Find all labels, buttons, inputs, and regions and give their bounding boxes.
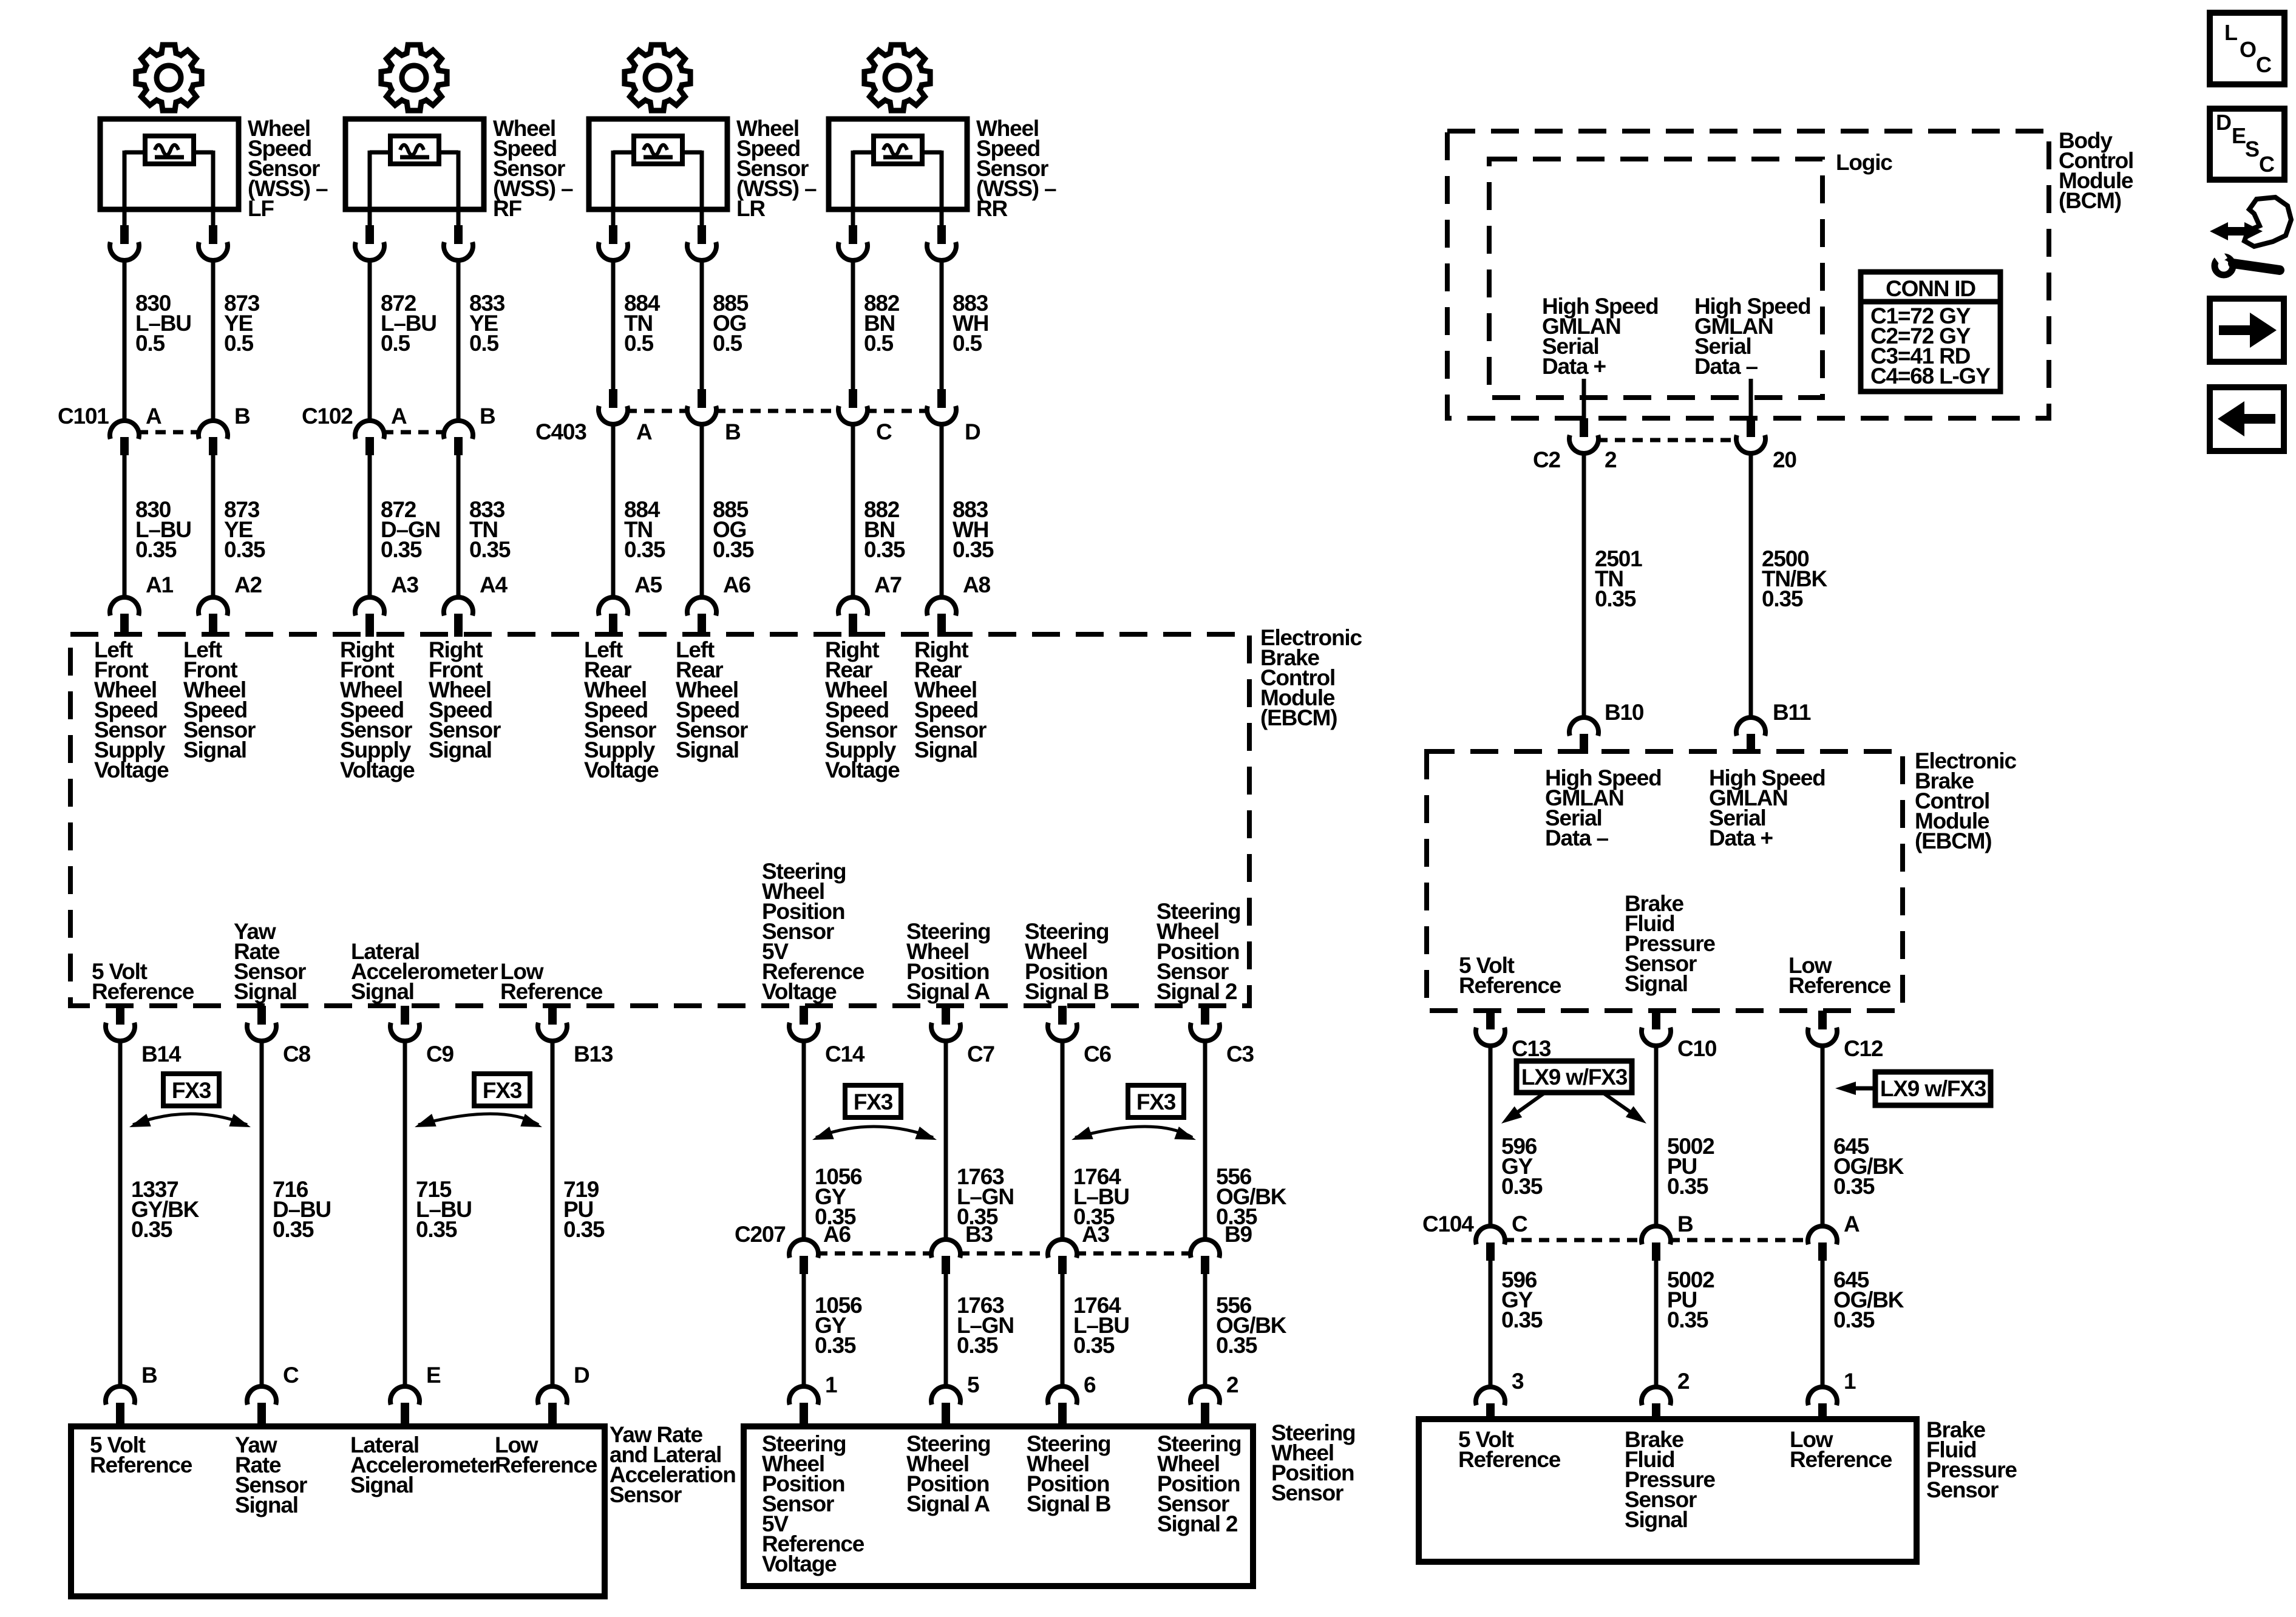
svg-text:Reference: Reference [90,1453,192,1477]
svg-text:0.35: 0.35 [1073,1333,1115,1358]
brake fluid pressure sensor pin 3 label [1512,1369,1524,1394]
svg-text:0.5: 0.5 [624,331,653,356]
svg-text:C3: C3 [1226,1042,1254,1066]
svg-text:LF: LF [248,196,274,221]
wire 882 BN 0.35 to EBCM pin A7 [851,424,855,600]
CONN ID table [1861,272,2000,392]
steering sensor pin 1 connector [789,1386,818,1428]
svg-text:FX3: FX3 [172,1078,211,1103]
label: circuit 1337 GY/BK 0.35 [131,1177,200,1242]
wheel speed sensor (WSS) LR: sensor element symbol [634,136,682,164]
steering sensor pin 5 label [967,1372,979,1397]
label: circuit 716 D–BU 0.35 [273,1177,331,1242]
EBCM bottom pin B14 connector [106,1006,135,1041]
label: Wheel Speed Sensor (WSS) - RR [976,116,1056,221]
EBCM pin B11 label [1773,700,1811,725]
yaw sensor pin E label [426,1363,441,1388]
svg-text:0.5: 0.5 [469,331,498,356]
EBCM internal label: Left Rear Wheel Speed Sensor Supply Voltage [584,637,659,782]
BCM internal label: High Speed GMLAN Serial Data - [1694,294,1811,379]
EBCM internal label: 5 Volt Reference [1459,953,1561,998]
EBCM internal label: Right Front Wheel Speed Sensor Signal [429,637,501,762]
connector C104 pin A [1808,1226,1837,1261]
connector C207 label [735,1222,786,1247]
EBCM internal label: Steering Wheel Position Signal B [1025,919,1109,1004]
svg-text:C10: C10 [1677,1036,1717,1061]
connector C101 label [58,404,109,429]
svg-text:5: 5 [967,1372,979,1397]
svg-text:A: A [636,419,652,444]
wheel speed sensor (WSS) RR: component box [829,119,967,209]
svg-text:Signal: Signal [429,737,492,762]
label: circuit 882 BN 0.5 [864,291,900,356]
svg-text:A: A [391,404,407,429]
svg-text:6: 6 [1084,1372,1096,1397]
wheel speed sensor (WSS) LF: component box [100,119,239,209]
label: Wheel Speed Sensor (WSS) - LF [248,116,328,221]
connector C403 pin A label [636,419,652,444]
svg-text:0.35: 0.35 [953,537,994,562]
wire 872 D–GN 0.35 to EBCM pin A3 [368,454,372,600]
wheel speed sensor (WSS) LR: gear icon [625,45,690,110]
EBCM bottom pin C3 connector [1190,1006,1220,1041]
svg-text:B14: B14 [141,1042,182,1066]
wire 556 OG/BK 0.35 from EBCM to C207 pin B9 [1203,1040,1207,1240]
label: circuit 884 TN 0.5 [624,291,661,356]
EBCM internal label: Lateral Accelerometer Signal [351,939,498,1004]
EBCM pin A5 connector [599,597,628,637]
svg-text:2: 2 [1226,1372,1238,1397]
wire 5002 PU 0.35 from C104 to brake fluid pressure sensor pin 2 [1654,1261,1659,1389]
svg-text:B13: B13 [574,1042,613,1066]
label: circuit 883 WH 0.5 [953,291,988,356]
svg-text:A6: A6 [823,1222,851,1247]
svg-text:C: C [1512,1212,1527,1236]
wire 1337 GY/BK 0.35 from EBCM to yaw sensor pin B [118,1040,123,1389]
label: circuit 1056 GY 0.35 (lower) [815,1293,862,1358]
EBCM internal label: Right Rear Wheel Speed Sensor Supply Voltage [825,637,900,782]
svg-text:(EBCM): (EBCM) [1260,705,1337,730]
connector C403 label [535,419,586,444]
svg-text:A1: A1 [146,572,174,597]
wheel speed sensor (WSS) RR: gear icon [864,45,930,110]
svg-text:0.35: 0.35 [469,537,511,562]
DESC icon box [2210,109,2284,180]
wire 645 OG/BK 0.35 from EBCM to C104 pin A [1821,1045,1825,1227]
connector: LR WSS pigtail pin B (male pin + female terminal) [687,225,716,260]
svg-text:0.35: 0.35 [1667,1174,1708,1199]
EBCM internal label: Low Reference [1788,953,1891,998]
wire 830 L–BU 0.5 from WSS to connector [123,260,127,421]
EBCM pin B10 label [1605,700,1644,725]
wheel speed sensor (WSS) RF: component box [345,119,484,209]
wire 719 PU 0.35 from EBCM to yaw sensor pin D [551,1040,555,1389]
svg-text:O: O [2240,37,2256,62]
Body Control Module (BCM) dashed box [1447,131,2049,418]
EBCM internal label: Steering Wheel Position Sensor Signal 2 [1156,899,1240,1004]
svg-text:Signal B: Signal B [1027,1491,1111,1516]
svg-text:A3: A3 [1082,1222,1110,1247]
svg-text:3: 3 [1512,1369,1524,1394]
label: circuit 2500 TN/BK 0.35 [1762,546,1828,611]
LOC icon box [2210,13,2284,84]
yaw sensor pin C connector [247,1386,276,1428]
label: circuit 830 L–BU 0.5 [135,291,191,356]
svg-text:Voltage: Voltage [762,979,837,1004]
connector C207 B3-A3 dashed link [959,1252,1049,1256]
label: circuit 2501 TN 0.35 [1595,546,1642,611]
EBCM bottom pin C9 connector [390,1006,419,1041]
svg-text:C: C [876,419,892,444]
EBCM bottom pin C14 label [825,1042,865,1066]
svg-text:Reference: Reference [1458,1447,1561,1472]
steering sensor pin 5 connector [931,1386,960,1428]
connector C403 pin B label [725,419,741,444]
svg-text:Data –: Data – [1694,354,1758,379]
EBCM internal label: Yaw Rate Sensor Signal [234,919,306,1004]
svg-text:C9: C9 [426,1042,454,1066]
wire 883 WH 0.5 from WSS to connector [940,260,944,389]
svg-text:C207: C207 [735,1222,786,1247]
EBCM internal label: Brake Fluid Pressure Sensor Signal [1625,891,1715,996]
LX9 w/FX3 option tag (right, arrow to C12 wire) [1835,1072,1991,1105]
svg-text:0.5: 0.5 [864,331,893,356]
EBCM bottom pin C3 label [1226,1042,1254,1066]
BCM Logic dashed box [1489,159,1822,398]
wire 873 YE 0.35 to EBCM pin A2 [211,454,216,600]
svg-text:0.5: 0.5 [713,331,742,356]
connector C403 C-D dashed link [866,409,928,413]
svg-text:Signal: Signal [234,979,297,1004]
brake fluid pressure sensor pin 1 label [1844,1369,1856,1394]
label: Brake Fluid Pressure Sensor [1926,1417,2017,1502]
label: circuit 873 YE 0.35 [224,497,265,562]
label: Yaw Rate and Lateral Acceleration Sensor [610,1422,736,1507]
EBCM internal label: Steering Wheel Position Sensor 5V Reference Voltage [762,859,864,1004]
EBCM bottom pin C7 label [967,1042,994,1066]
EBCM bottom pin C12 label [1844,1036,1883,1061]
svg-text:A: A [1844,1212,1860,1236]
wire 596 GY 0.35 from C104 to brake fluid pressure sensor pin 3 [1489,1261,1493,1389]
Yaw Rate and Lateral Acceleration Sensor box [71,1426,605,1596]
connector C101 A-B dashed link [138,430,200,435]
svg-text:A5: A5 [634,572,662,597]
yaw sensor internal labels [90,1432,192,1477]
EBCM internal label: Right Front Wheel Speed Sensor Supply Voltage [340,637,415,782]
svg-text:Data +: Data + [1709,825,1773,850]
svg-text:RR: RR [976,196,1008,221]
svg-text:C104: C104 [1422,1212,1474,1236]
label: circuit 883 WH 0.35 [953,497,994,562]
FX3 option tag (between B14 and C8) [129,1074,251,1127]
EBCM pin A8 connector [927,597,956,637]
svg-text:C: C [2259,152,2275,177]
svg-text:0.35: 0.35 [815,1333,856,1358]
svg-text:A6: A6 [723,572,751,597]
connector: LR WSS pigtail pin A (male pin + female terminal) [599,225,628,260]
label: circuit 645 OG/BK 0.35 (lower) [1833,1267,1904,1332]
connector C403 pin B [687,389,716,424]
wire 1763 L–GN 0.35 from EBCM to C207 pin B3 [944,1040,948,1240]
connector C104 label [1422,1212,1474,1236]
svg-text:0.35: 0.35 [273,1217,314,1242]
wire 2500 TN/BK 0.35 (GMLAN serial data) [1749,452,1753,718]
steering sensor pin 6 label [1084,1372,1096,1397]
connector C207 pin A6 label [823,1222,851,1247]
label: circuit 872 D–GN 0.35 [381,497,440,562]
wire LF sensor internal leads [124,151,213,225]
svg-text:0.35: 0.35 [563,1217,605,1242]
svg-text:D: D [965,419,980,444]
svg-text:A8: A8 [963,572,991,597]
svg-text:Signal A: Signal A [906,1491,990,1516]
yaw sensor pin B label [141,1363,157,1388]
EBCM bottom pin B13 connector [538,1006,567,1041]
EBCM pin A2 connector [199,597,228,637]
svg-text:D: D [2216,110,2231,135]
wire 830 L–BU 0.35 to EBCM pin A1 [123,454,127,600]
connector C2 pin 20 [1736,418,1765,453]
svg-text:(EBCM): (EBCM) [1915,829,1991,853]
wire 1056 GY 0.35 from EBCM to C207 pin A6 [802,1040,806,1240]
svg-text:Signal: Signal [350,1473,413,1497]
label: circuit 715 L–BU 0.35 [416,1177,472,1242]
svg-text:Signal 2: Signal 2 [1157,1511,1238,1536]
wire 715 L–BU 0.35 from EBCM to yaw sensor pin E [403,1040,407,1389]
svg-text:S: S [2245,137,2259,161]
connector C207 pin A6 [789,1239,818,1274]
connector C102 pin B label [480,404,495,429]
wire 1764 L–BU 0.35 from EBCM to C207 pin A3 [1061,1040,1065,1240]
svg-text:Voltage: Voltage [584,758,659,782]
EBCM bottom pin C13 label [1512,1036,1551,1061]
EBCM pin A4 connector [444,597,473,637]
svg-text:0.35: 0.35 [1667,1307,1708,1332]
svg-text:0.35: 0.35 [1762,586,1803,611]
EBCM pin A6 label [723,572,751,597]
yaw sensor pin B connector [106,1386,135,1428]
EBCM internal label: Steering Wheel Position Signal A [906,919,990,1004]
svg-text:Signal: Signal [676,737,739,762]
wire 5002 PU 0.35 from EBCM to C104 pin B [1654,1045,1659,1227]
svg-text:0.35: 0.35 [131,1217,172,1242]
label: circuit 556 OG/BK 0.35 (upper) [1216,1164,1287,1229]
svg-text:C2: C2 [1533,447,1561,472]
EBCM pin A7 connector [838,597,868,637]
svg-text:B3: B3 [965,1222,993,1247]
wire 885 OG 0.5 from WSS to connector [700,260,704,389]
connector: RR WSS pigtail pin A (male pin + female terminal) [838,225,868,260]
wheel speed sensor (WSS) RR: sensor element symbol [874,136,922,164]
svg-text:CONN ID: CONN ID [1886,276,1975,301]
connector: RR WSS pigtail pin B (male pin + female terminal) [927,225,956,260]
wire LR sensor internal leads [613,151,702,225]
svg-text:1: 1 [1844,1369,1856,1394]
svg-text:Signal B: Signal B [1025,979,1109,1004]
connector C101 pin B label [234,404,250,429]
connector C102 A-B dashed link [383,430,445,435]
Steering Wheel Position Sensor box [744,1426,1253,1586]
wire 885 OG 0.35 to EBCM pin A6 [700,424,704,600]
wheel speed sensor (WSS) RF: sensor element symbol [390,136,439,164]
svg-text:0.35: 0.35 [1216,1333,1257,1358]
connector C102 pin A label [391,404,407,429]
svg-text:A: A [146,404,161,429]
connector C104 pin B [1642,1226,1671,1261]
svg-text:(BCM): (BCM) [2059,188,2121,213]
svg-text:Signal: Signal [914,737,977,762]
svg-text:Data +: Data + [1542,354,1606,379]
connector: LF WSS pigtail pin B (male pin + female terminal) [199,225,228,260]
yaw sensor pin D connector [538,1386,567,1428]
connector C2 pin2-pin20 dashed link [1597,438,1737,442]
label: circuit 872 L–BU 0.5 [381,291,436,356]
EBCM bottom pin C6 connector [1048,1006,1077,1041]
svg-text:FX3: FX3 [1136,1090,1176,1114]
EBCM internal label: Left Rear Wheel Speed Sensor Signal [676,637,748,762]
label: Body Control Module (BCM) [2059,128,2133,213]
EBCM internal label: Left Front Wheel Speed Sensor Signal [183,637,256,762]
yaw sensor pin D label [574,1363,589,1388]
EBCM bottom pin B14 label [141,1042,182,1066]
wire 883 WH 0.35 to EBCM pin A8 [940,424,944,600]
svg-text:Voltage: Voltage [825,758,900,782]
svg-text:C14: C14 [825,1042,865,1066]
EBCM bottom pin C8 connector [247,1006,276,1041]
svg-text:C102: C102 [302,404,353,429]
label: circuit 833 TN 0.35 [469,497,511,562]
EBCM bottom pin C6 label [1084,1042,1112,1066]
connector C403 pin D label [965,419,980,444]
FX3 option tag (between C6 and C3) [1072,1085,1196,1140]
connector C403 A-B dashed link [627,409,688,413]
svg-text:C8: C8 [283,1042,311,1066]
svg-text:Voltage: Voltage [94,758,169,782]
svg-text:Sensor: Sensor [1926,1477,1999,1502]
wire 882 BN 0.5 from WSS to connector [851,260,855,389]
wire 1763 L–GN 0.35 from C207 to steering sensor pin 5 [944,1274,948,1389]
EBCM pin A6 connector [687,597,716,637]
svg-text:Reference: Reference [495,1453,597,1477]
connector C207 A6-B3 dashed link [817,1252,932,1256]
label: circuit 1764 L–BU 0.35 (upper) [1073,1164,1129,1229]
svg-text:1: 1 [825,1372,837,1397]
yaw sensor pin E connector [390,1386,419,1428]
svg-text:D: D [574,1363,589,1388]
connector: LF WSS pigtail pin A (male pin + female terminal) [110,225,139,260]
wire 716 D–BU 0.35 from EBCM to yaw sensor pin C [260,1040,264,1389]
svg-text:C403: C403 [535,419,586,444]
connector C207 pin B3 [931,1239,960,1274]
label: Logic [1836,150,1892,175]
wire 833 YE 0.5 from WSS to connector [457,260,461,421]
label: circuit 596 GY 0.35 (upper) [1501,1134,1543,1199]
svg-text:0.35: 0.35 [224,537,265,562]
EBCM bottom pin C13 connector [1476,1011,1505,1046]
svg-text:C101: C101 [58,404,109,429]
EBCM pin A1 label [146,572,174,597]
label: Wheel Speed Sensor (WSS) - LR [736,116,817,221]
svg-text:C: C [283,1363,299,1388]
EBCM pin A4 label [480,572,508,597]
steering sensor internal labels [762,1431,864,1576]
svg-text:Reference: Reference [1790,1447,1892,1472]
svg-text:E: E [2232,123,2246,148]
wire 2501 TN 0.35 (GMLAN serial data) [1582,452,1586,718]
svg-text:0.35: 0.35 [1833,1307,1875,1332]
Brake Fluid Pressure Sensor box [1419,1419,1917,1562]
connector C207 pin B3 label [965,1222,993,1247]
wire 872 L–BU 0.5 from WSS to connector [368,260,372,421]
wheel speed sensor (WSS) LF: sensor element symbol [145,136,194,164]
connector C403 pin A [599,389,628,424]
EBCM bottom pin C8 label [283,1042,311,1066]
svg-text:0.5: 0.5 [135,331,165,356]
wire RR sensor internal leads [853,151,942,225]
connector C102 pin B [444,421,473,455]
svg-text:A2: A2 [234,572,262,597]
svg-text:Voltage: Voltage [762,1551,837,1576]
svg-text:Signal A: Signal A [906,979,990,1004]
wire 884 TN 0.5 from WSS to connector [611,260,616,389]
connector C102 pin A [355,421,384,455]
connector C403 pin C [838,389,868,424]
wire 1764 L–BU 0.35 from C207 to steering sensor pin 6 [1061,1274,1065,1389]
svg-text:Signal: Signal [1625,1507,1688,1532]
svg-text:FX3: FX3 [483,1078,522,1103]
connector: RF WSS pigtail pin B (male pin + female terminal) [444,225,473,260]
EBCM internal label: Left Front Wheel Speed Sensor Supply Voltage [94,637,169,782]
label: Electronic Brake Control Module (EBCM) left [1260,625,1362,730]
svg-text:0.35: 0.35 [713,537,754,562]
label: circuit 556 OG/BK 0.35 (lower) [1216,1293,1287,1358]
svg-text:Reference: Reference [500,979,603,1004]
EBCM pin A3 label [391,572,419,597]
connector C101 pin A label [146,404,161,429]
EBCM internal label: Low Reference [500,959,603,1004]
connector: RF WSS pigtail pin A (male pin + female terminal) [355,225,384,260]
wheel speed sensor (WSS) LF: gear icon [136,45,202,110]
svg-text:0.35: 0.35 [957,1333,998,1358]
svg-text:C7: C7 [967,1042,994,1066]
EBCM pin A2 label [234,572,262,597]
brake fluid pressure sensor pin 2 connector [1642,1387,1671,1420]
wire from BCM Data + through logic box [1582,379,1586,418]
svg-text:0.35: 0.35 [1501,1307,1543,1332]
EBCM bottom pin C12 connector [1808,1011,1837,1046]
LX9 w/FX3 option tag (left, with two arrows) [1501,1061,1646,1124]
svg-text:LX9 w/FX3: LX9 w/FX3 [1880,1076,1986,1101]
EBCM bottom pin C9 label [426,1042,454,1066]
brake fluid pressure sensor pin 3 connector [1476,1387,1505,1420]
svg-text:C12: C12 [1844,1036,1883,1061]
wire from BCM Data - through logic box [1749,379,1753,418]
svg-text:LX9 w/FX3: LX9 w/FX3 [1521,1065,1628,1090]
svg-text:LR: LR [736,196,765,221]
wheel speed sensor (WSS) LR: component box [589,119,727,209]
label: circuit 830 L–BU 0.35 [135,497,191,562]
svg-text:RF: RF [493,196,522,221]
connector C403 pin D [927,389,956,424]
label: circuit 833 YE 0.5 [469,291,505,356]
label: circuit 1763 L–GN 0.35 (lower) [957,1293,1014,1358]
steering sensor pin 2 connector [1190,1386,1220,1428]
wire RF sensor internal leads [370,151,458,225]
svg-text:A4: A4 [480,572,508,597]
svg-text:Sensor: Sensor [610,1482,682,1507]
EBCM pin A8 label [963,572,991,597]
svg-text:0.35: 0.35 [1501,1174,1543,1199]
